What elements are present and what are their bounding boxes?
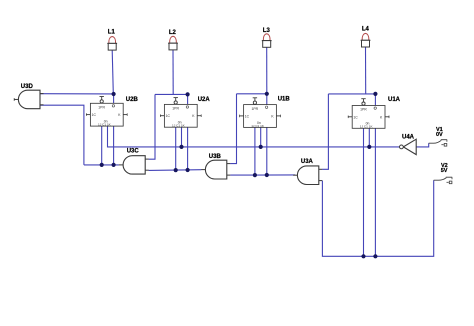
wire U3C output net — [84, 164, 119, 166]
wire 5V rail from U3A input B to V2 — [322, 180, 433, 256]
wire U2A pin K down — [187, 127, 189, 170]
junction node Q1A — [373, 92, 377, 96]
svg-text:1C: 1C — [166, 114, 171, 118]
wire U2A pin C down to CLR line — [181, 127, 183, 147]
svg-text:U1B: U1B — [278, 97, 291, 103]
svg-text:1J C1 1K: 1J C1 1K — [172, 124, 186, 128]
JK flip-flop U1A — [348, 97, 401, 129]
svg-text:U3A: U3A — [301, 159, 314, 165]
svg-text:U1A: U1A — [388, 97, 401, 103]
wire U1A pin J down to 5V rail — [363, 128, 365, 256]
wire U2B pin J down — [101, 126, 103, 165]
junction U1B J on U3A output net — [253, 173, 257, 177]
svg-text:1PR: 1PR — [172, 107, 179, 111]
probe lamp L2 — [168, 30, 178, 50]
svg-text:1J C1 1K: 1J C1 1K — [98, 123, 112, 127]
wire node Q1B to U3B input A — [230, 94, 236, 164]
junction U1B C on CLR line — [259, 145, 263, 149]
junction node Q2A — [186, 92, 190, 96]
wire node Q2A to U2A pin Q — [187, 94, 189, 104]
svg-text:1C: 1C — [245, 114, 250, 118]
AND gate U3D (output facing left) — [14, 84, 43, 109]
wire U1B pin K down — [266, 127, 268, 175]
junction node Q1B — [265, 92, 269, 96]
svg-text:U4A: U4A — [402, 134, 415, 140]
source V2 5V (interactive switch) — [434, 163, 453, 184]
svg-text:U3D: U3D — [21, 84, 34, 90]
wire U1B pin J down — [254, 127, 256, 175]
svg-text:1C: 1C — [92, 113, 97, 117]
wire U3A output to U3B input B — [230, 174, 295, 176]
AND gate U3B (output facing left) — [201, 154, 230, 179]
svg-text:L3: L3 — [263, 28, 271, 34]
wire node Q1A to U1A pin Q — [374, 94, 376, 106]
JK flip-flop U1B — [239, 97, 290, 128]
wire U1A pin K down to 5V rail — [374, 128, 376, 256]
junction U2A J on U3B output net — [174, 168, 178, 172]
wire node Q2B to U3D input A — [40, 93, 114, 95]
probe lamp L4 — [361, 27, 371, 48]
junction node Q2B — [112, 92, 116, 96]
wire U2B pin K down — [113, 126, 115, 165]
wire node Q1B horizontal — [237, 93, 267, 95]
wire node Q1A horizontal — [328, 93, 375, 95]
junction U1A J on 5V rail — [361, 254, 365, 258]
probe lamp L3 — [262, 28, 272, 48]
JK flip-flop U2A — [160, 97, 210, 128]
wire node Q1A to U3A input A — [322, 94, 328, 169]
junction U1A C on CLR line — [367, 145, 371, 149]
wire node Q2A to U3C input A — [149, 94, 155, 159]
svg-text:0V: 0V — [436, 132, 443, 138]
wire CLR line U2B to U4A output — [108, 126, 400, 147]
svg-text:L2: L2 — [169, 30, 177, 36]
inverter U4A (output facing left) — [400, 134, 417, 154]
svg-text:1PR: 1PR — [98, 106, 105, 110]
svg-text:U2B: U2B — [126, 97, 139, 103]
svg-text:5V: 5V — [441, 168, 448, 174]
svg-text:1C: 1C — [353, 115, 358, 119]
junction U2B K on U3C output net — [112, 163, 116, 167]
wire L3 down to node Q1B — [266, 47, 268, 94]
wire U3B output to U3C input B — [149, 169, 202, 172]
svg-text:1PR: 1PR — [360, 108, 367, 112]
svg-text:1PR: 1PR — [252, 107, 259, 111]
svg-text:1J C1 1K: 1J C1 1K — [360, 125, 374, 129]
probe lamp L1 — [107, 29, 117, 50]
svg-text:1J C1 1K: 1J C1 1K — [251, 124, 265, 128]
svg-text:U3C: U3C — [127, 149, 140, 155]
wire U4A input to V1 — [416, 143, 429, 147]
junction U1B K on U3A output net — [265, 173, 269, 177]
junction U2A K on U3B output net — [186, 168, 190, 172]
AND gate U3A (output facing left) — [293, 159, 322, 184]
wire L4 down — [365, 47, 367, 94]
source V1 0V (interactive switch) — [429, 127, 447, 146]
wire U2A pin J down — [175, 127, 177, 170]
svg-text:U3B: U3B — [209, 154, 222, 160]
junction U2A C on CLR line — [179, 145, 183, 149]
wire node Q1B to U1B pin Q — [266, 94, 268, 105]
wire L1 to node Q2B — [112, 50, 113, 94]
AND gate U3C (output facing left) — [119, 149, 149, 175]
wire U3D input B down to U3C output net — [40, 105, 84, 165]
wire U1A pin C down to CLR line — [368, 128, 370, 147]
wire node Q2A horizontal — [155, 93, 188, 95]
svg-text:L1: L1 — [108, 29, 116, 35]
junction U2B J on U3C output net — [100, 163, 104, 167]
wire node Q2B to U2B pin Q — [113, 94, 115, 104]
svg-text:L4: L4 — [362, 27, 370, 33]
wire L2 down — [172, 50, 174, 95]
JK flip-flop U2B — [86, 97, 138, 127]
wire U1B pin C down to CLR line — [260, 127, 262, 146]
junction U1A K on 5V rail — [373, 254, 377, 258]
svg-text:U2A: U2A — [198, 97, 211, 103]
